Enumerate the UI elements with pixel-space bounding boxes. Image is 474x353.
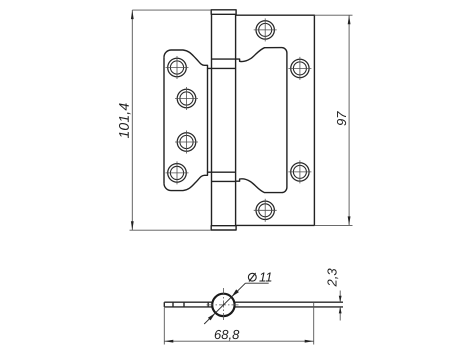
hole L1 bbox=[168, 58, 187, 77]
bend tick 3 bbox=[207, 302, 209, 307]
barrel knuckle joint lines bbox=[212, 58, 236, 60]
circle centerlines bbox=[207, 288, 241, 322]
diameter symbol bbox=[248, 273, 256, 282]
svg-text:97: 97 bbox=[334, 111, 349, 126]
svg-text:11: 11 bbox=[259, 270, 273, 285]
hole R1 bbox=[256, 21, 274, 39]
hole crosshairs bbox=[166, 18, 312, 221]
hole L2 bbox=[177, 89, 196, 108]
bend tick 1 bbox=[172, 302, 174, 307]
right leaf outline bbox=[236, 15, 315, 225]
hole R4 bbox=[256, 201, 274, 219]
hole L3 bbox=[177, 133, 196, 152]
right leaf cutout bbox=[236, 48, 287, 193]
plate left end bbox=[163, 302, 165, 307]
left leaf left edge bbox=[163, 57, 165, 183]
hole R3 bbox=[291, 163, 309, 181]
screw holes bbox=[168, 21, 309, 220]
dimension 101,4 bbox=[130, 10, 212, 230]
hole L4 bbox=[168, 164, 187, 183]
dimension 97 bbox=[314, 15, 352, 225]
diameter leader line bbox=[204, 283, 269, 324]
dimension 2,3 bbox=[339, 291, 341, 321]
bend tick 2 bbox=[183, 302, 185, 307]
svg-text:101,4: 101,4 bbox=[116, 103, 132, 139]
barrel body bbox=[211, 15, 213, 226]
svg-text:68,8: 68,8 bbox=[214, 327, 240, 342]
barrel circle in bottom view bbox=[212, 294, 234, 316]
barrel top cap bbox=[211, 10, 236, 15]
left leaf knuckle curl line bbox=[207, 68, 209, 172]
dimension 68,8 bbox=[164, 302, 313, 344]
plate top edge bbox=[164, 301, 212, 303]
svg-text:2,3: 2,3 bbox=[324, 268, 339, 288]
hole R2 bbox=[291, 59, 309, 77]
barrel bottom cap bbox=[211, 226, 236, 230]
bottom view plate bbox=[164, 302, 343, 307]
left leaf bbox=[164, 50, 212, 68]
plate bottom edge bbox=[164, 306, 212, 308]
